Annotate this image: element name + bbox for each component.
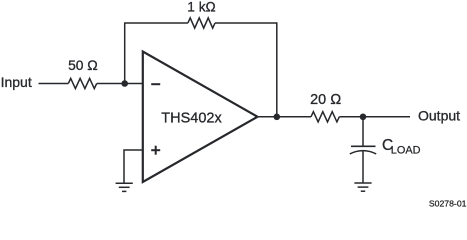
wire junction down to capacitor — [362, 117, 364, 147]
wire junction up to feedback — [124, 23, 126, 84]
wire capacitor to ground — [362, 151, 364, 183]
resistor 50 ohm — [68, 78, 96, 88]
ground at load capacitor — [354, 183, 371, 191]
svg-text:1 kΩ: 1 kΩ — [187, 0, 216, 14]
wire feedback down to output node — [276, 22, 278, 116]
wire input lead — [39, 83, 69, 85]
wire feedback top left — [124, 22, 188, 24]
node input junction — [121, 80, 128, 87]
svg-text:50 Ω: 50 Ω — [68, 58, 98, 73]
svg-text:THS402x: THS402x — [161, 111, 222, 127]
wire op-amp output — [258, 116, 312, 118]
resistor 1 kohm — [188, 18, 215, 28]
wire non-inverting input — [124, 150, 143, 183]
wire to output — [339, 116, 410, 118]
svg-text:LOAD: LOAD — [391, 144, 421, 156]
node load junction — [360, 114, 367, 121]
op-amp non-inverting pin plus sign — [151, 146, 160, 155]
capacitor C_LOAD curved bottom plate — [350, 151, 376, 154]
node output junction — [274, 114, 281, 121]
ground at non-inverting input — [116, 183, 133, 191]
resistor 20 ohm — [311, 112, 339, 122]
capacitor C_LOAD top plate — [351, 145, 376, 147]
op-amp inverting pin minus sign — [151, 83, 160, 85]
wire R1 to inverting input — [97, 83, 143, 85]
op-amp U1 THS402x — [143, 52, 258, 183]
svg-text:20 Ω: 20 Ω — [310, 92, 341, 108]
svg-text:S0278-01: S0278-01 — [429, 199, 467, 207]
wire feedback top right — [215, 22, 277, 24]
svg-text:Input: Input — [1, 74, 32, 90]
svg-text:Output: Output — [418, 108, 460, 124]
